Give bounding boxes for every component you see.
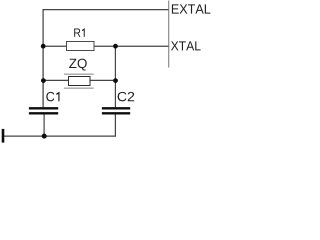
crystal ZQ plate bottom <box>64 87 94 89</box>
capacitor C2 plates <box>102 107 130 109</box>
node: junction XTAL / right rail <box>113 44 118 49</box>
wire right rail lower + ground wire <box>4 114 116 136</box>
label R1 <box>74 28 85 37</box>
ground <box>2 129 5 143</box>
wire left rail lower <box>43 114 45 136</box>
node: junction ground wire / C1 <box>42 134 47 139</box>
wire crystal row <box>43 79 115 81</box>
label C1 <box>46 92 59 102</box>
wire top EXTAL <box>43 10 168 46</box>
label C2 <box>118 92 135 101</box>
capacitor C1 plates <box>29 107 58 109</box>
crystal ZQ body <box>69 77 91 86</box>
crystal ZQ plate top <box>64 73 94 75</box>
resistor R1 <box>67 42 95 51</box>
wire XTAL row <box>43 45 168 47</box>
wire left rail <box>42 46 44 107</box>
node: junction R1 left <box>41 44 46 49</box>
node: junction crystal right <box>113 78 118 83</box>
node: junction crystal left <box>41 78 46 83</box>
IC edge (device boundary line) <box>168 1 170 68</box>
wire right rail <box>114 46 116 107</box>
pin label EXTAL <box>172 4 210 13</box>
label ZQ <box>69 59 87 71</box>
pin label XTAL <box>171 41 201 50</box>
